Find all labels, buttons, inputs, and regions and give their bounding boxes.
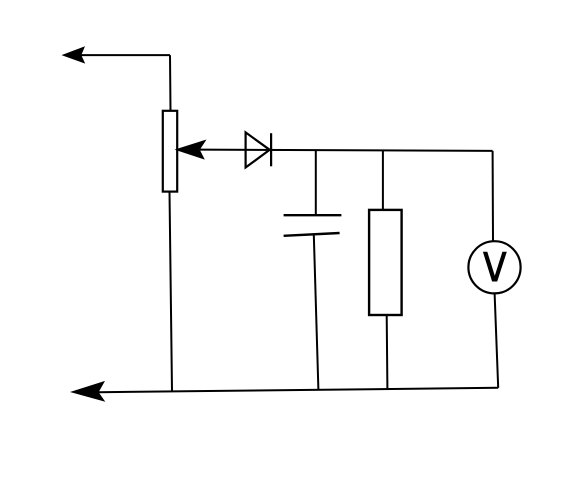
wire top horizontal [78,54,170,56]
wire resistor top branch [382,150,384,210]
voltmeter V label [483,252,507,282]
wire pot bottom vertical [170,192,173,392]
potentiometer R1 body [163,111,177,192]
wire top right vertical down to potentiometer [169,55,172,111]
wire capacitor bottom branch [314,235,319,390]
wire voltmeter bottom branch [495,293,499,387]
terminal arrow top-left [62,46,86,63]
wire resistor bottom branch [386,315,389,389]
voltmeter M1 circle [468,241,520,293]
wire main horizontal (wiper to right corner) [200,150,493,151]
potentiometer wiper arrow [175,140,207,160]
wire bottom horizontal [98,388,498,392]
wire capacitor top branch [315,150,317,215]
capacitor C1 top plate [284,214,342,216]
diode D1 cathode bar [270,133,272,166]
diode D1 triangle [246,132,270,167]
capacitor C1 bottom plate [284,233,340,236]
resistor R2 body [369,210,402,315]
terminal arrow bottom-left [70,381,105,402]
wire right vertical to voltmeter [492,151,494,241]
